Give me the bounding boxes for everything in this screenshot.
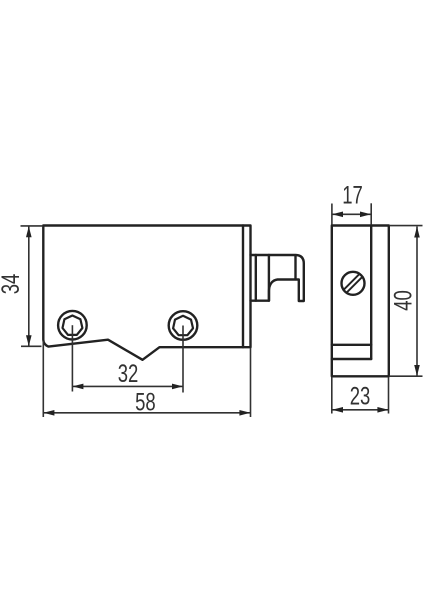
- dim 58 extension line left: [42, 341, 44, 417]
- svg-text:17: 17: [342, 181, 363, 209]
- dim 40 line: [416, 227, 418, 377]
- svg-text:40: 40: [389, 290, 417, 311]
- dim 32 centerline right: [182, 326, 184, 393]
- dim 23 extension line right: [388, 377, 390, 414]
- side view slot upper line: [332, 344, 371, 346]
- dim 32 line: [72, 385, 183, 387]
- dim 58 line: [43, 412, 250, 414]
- dim 17 arrow left: [332, 212, 343, 218]
- svg-text:23: 23: [350, 382, 371, 410]
- dim 17 extension line right: [370, 203, 372, 224]
- dim 32 arrow left: [72, 384, 83, 390]
- dim 17 line: [332, 213, 371, 215]
- side view inner vertical line: [370, 226, 372, 360]
- hook inner vertical line mid: [268, 255, 270, 301]
- dim 34 arrow up: [26, 226, 32, 237]
- side view slot lower line: [332, 358, 371, 360]
- dim 23 arrow right: [377, 407, 388, 413]
- dim 32 centerline left: [71, 325, 73, 391]
- dim text 23: [350, 382, 371, 410]
- dim 23 arrow left: [332, 407, 343, 413]
- screw hole left outer circle: [58, 311, 87, 340]
- dim text 34: [0, 274, 25, 295]
- hook inner vertical line right: [294, 256, 296, 280]
- screw slot line upper: [344, 274, 360, 290]
- dim 23 extension line left: [331, 377, 333, 414]
- dim 40 extension line bottom: [389, 375, 423, 377]
- svg-text:32: 32: [118, 359, 139, 387]
- dim 34 extension line bottom: [21, 345, 42, 347]
- screw hole right inner socket: [173, 316, 193, 335]
- dim text 40: [389, 290, 417, 311]
- screw hole right outer circle: [169, 311, 198, 340]
- dim 17 arrow right: [360, 212, 371, 218]
- dim 40 arrow up: [414, 227, 420, 238]
- screw hole left inner socket: [63, 316, 83, 335]
- dim 40 arrow down: [414, 365, 420, 376]
- front body inner right edge line: [242, 226, 244, 348]
- dim text 17: [342, 181, 363, 209]
- dim 32 arrow right: [172, 384, 183, 390]
- front view body outline: [43, 226, 250, 360]
- dim text 32: [118, 359, 139, 387]
- dim 58 arrow left: [43, 410, 54, 416]
- svg-text:58: 58: [135, 388, 156, 416]
- side view body outline: [332, 226, 389, 377]
- screw head circle: [342, 272, 365, 295]
- dim 34 arrow down: [26, 335, 32, 346]
- dim text 58: [135, 388, 156, 416]
- dim 34 line: [28, 226, 30, 346]
- dim 58 extension line right: [250, 348, 252, 417]
- dim 40 extension line top: [389, 225, 423, 227]
- dim 58 arrow right: [239, 410, 250, 416]
- hook inner vertical line left: [255, 255, 257, 301]
- screw slot line lower: [346, 277, 362, 293]
- dim 23 line: [332, 409, 388, 411]
- hook outer contour: [251, 255, 304, 301]
- dim 17 extension line left: [331, 204, 333, 225]
- dim 34 extension line top: [21, 225, 44, 227]
- svg-text:34: 34: [0, 274, 25, 295]
